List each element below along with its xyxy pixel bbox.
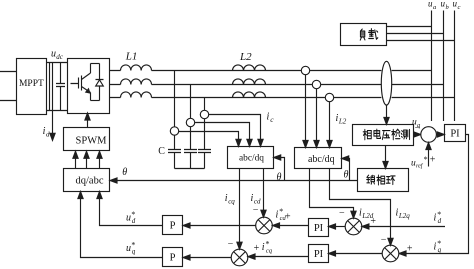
svg-text:θ: θ [277, 172, 282, 183]
svg-text:u: u [126, 243, 131, 254]
wire capacitor common bus [175, 168, 205, 170]
current sensor CT4 [301, 66, 309, 74]
wire PI3 output to i_q ref [405, 135, 469, 254]
svg-text:+: + [407, 244, 413, 255]
inductor L1 phase C [121, 92, 152, 98]
svg-text:C: C [158, 146, 165, 157]
svg-text:+: + [370, 216, 376, 227]
wire bridge bottom [91, 100, 100, 102]
wire phase C [110, 97, 455, 99]
capacitor DC link [56, 63, 65, 111]
wire i_cq [239, 169, 241, 244]
svg-text:i: i [276, 209, 279, 220]
hanzi zai (load 2) [369, 29, 378, 39]
svg-text:P: P [170, 221, 176, 232]
summing junction D (q L2 current) [382, 245, 399, 262]
wire capacitor tap A [174, 71, 176, 150]
block PI2 [309, 245, 329, 263]
svg-text:−: − [339, 208, 345, 219]
svg-text:cq: cq [266, 247, 273, 254]
block PI3 [445, 125, 466, 142]
svg-text:+: + [254, 243, 260, 254]
svg-text:−: − [415, 123, 421, 134]
svg-text:L2q: L2q [398, 212, 410, 220]
inductor L1 phase B [121, 79, 152, 85]
wire summing to PI3 [436, 134, 438, 136]
wire PV input bottom [0, 100, 17, 102]
wire load line c [387, 40, 455, 42]
svg-text:cq: cq [228, 198, 235, 206]
diode D1 [96, 64, 104, 101]
svg-text:P: P [170, 253, 176, 264]
svg-text:L2: L2 [338, 118, 347, 126]
block dq/abc [64, 169, 110, 192]
svg-text:L1: L1 [125, 51, 138, 63]
summing junction A (d current) [256, 217, 273, 234]
inductor L1 phase A [121, 65, 152, 71]
svg-text:dc: dc [56, 53, 64, 61]
svg-text:u: u [126, 212, 131, 223]
wire load line a [387, 26, 432, 28]
hanzi fu (load 1) [360, 29, 365, 40]
wire capacitor tap C [204, 98, 206, 150]
wire sumC to P2 [188, 257, 231, 259]
svg-text:ref: ref [416, 163, 424, 170]
wire i_L2 signal a [305, 75, 307, 142]
wire SPWM to inverter [87, 118, 89, 127]
wire u_ref input [428, 149, 430, 166]
wire dq/abc to SPWM 1 [75, 157, 77, 169]
summing junction voltage [421, 127, 437, 143]
wire phase A [110, 70, 432, 72]
summing junction B (d L2 current) [345, 218, 362, 235]
wire sumB to PI1 [334, 226, 345, 228]
block P1 [163, 216, 183, 235]
block phase voltage detection [353, 125, 414, 146]
wire theta distribution [116, 180, 358, 182]
inductor L2 phase C [233, 92, 266, 98]
svg-text:PI: PI [314, 223, 324, 234]
svg-text:dq/abc: dq/abc [76, 176, 104, 187]
wire i_L2q [330, 169, 391, 240]
current sensor CT5 [312, 80, 320, 88]
svg-text:i: i [434, 213, 437, 224]
svg-text:+: + [285, 212, 291, 223]
svg-text:−: − [253, 205, 259, 216]
wire i_c signal c [209, 115, 261, 141]
wire sumA to P1 [188, 225, 255, 227]
wire u_q* path [81, 197, 163, 257]
wire dq/abc to SPWM 3 [99, 157, 101, 169]
current sensor CT3 [200, 110, 208, 118]
wire PV input top [0, 71, 17, 73]
svg-text:i: i [434, 242, 437, 253]
node u_b line [443, 11, 445, 122]
wire phase B [110, 84, 444, 86]
hanzi dian (detection 2) [374, 129, 381, 138]
transistor IGBT Q1 [71, 64, 91, 101]
wire i_d sense line [52, 111, 54, 135]
wire theta branch to abc/dq1 [279, 158, 284, 181]
hanzi ce (detection 5) [401, 129, 409, 139]
wire dq/abc to SPWM 2 [86, 157, 88, 169]
hanzi suo (PLL 1) [367, 175, 375, 184]
hanzi xiang (PLL 2) [377, 175, 385, 185]
block P2 [163, 248, 183, 267]
wire theta branch to abc/dq2 [347, 159, 349, 181]
svg-text:PI: PI [314, 249, 324, 260]
svg-text:c: c [270, 115, 274, 124]
wire i_cq* from PI2 [254, 256, 309, 258]
block PI1 [309, 219, 329, 237]
block abc/dq 1 [228, 147, 274, 169]
svg-text:q: q [132, 247, 136, 255]
wire DC rail bottom [47, 110, 68, 112]
svg-text:abc/dq: abc/dq [308, 154, 335, 165]
block abc/dq 2 [295, 148, 342, 169]
svg-text:d: d [132, 217, 136, 225]
summing junction C (q current) [231, 249, 248, 266]
wire DC bus link 1 [49, 63, 51, 111]
inductor L2 phase B [233, 79, 266, 85]
svg-text:q: q [438, 246, 442, 254]
svg-text:θ: θ [344, 170, 349, 181]
current sensor CT6 [325, 93, 333, 101]
wire detection to PLL [385, 146, 387, 164]
wire i_cd [263, 169, 265, 212]
wire i_L2d [310, 169, 354, 213]
wire u_q to summing [413, 134, 416, 136]
wire i_c signal b [195, 123, 250, 141]
wire i_cd* from PI1 [279, 225, 309, 227]
svg-text:−: − [381, 235, 387, 246]
wire sumD to PI2 [334, 253, 382, 255]
svg-text:abc/dq: abc/dq [239, 153, 264, 163]
current sensor CT2 [186, 118, 194, 126]
node u_c line [454, 11, 456, 122]
hanzi huan (PLL 3) [386, 176, 395, 185]
capacitor C phase A [168, 150, 181, 169]
block inverter bridge [68, 59, 110, 114]
wire DC rail top [47, 62, 68, 64]
wire i_d* reference [368, 226, 445, 228]
svg-text:PI: PI [450, 129, 460, 140]
wire i_c signal a [179, 132, 239, 141]
block MPPT [17, 59, 47, 115]
svg-text:SPWM: SPWM [76, 136, 108, 147]
hanzi xiang (detection 1) [363, 129, 371, 139]
block SPWM [64, 128, 110, 151]
svg-text:a: a [433, 4, 436, 11]
capacitor C phase B [184, 150, 197, 169]
svg-text:+: + [430, 155, 436, 166]
wire bridge top [91, 63, 100, 65]
svg-text:c: c [458, 4, 461, 11]
hanzi jian (detection 4) [392, 129, 400, 140]
inductor L2 phase A [233, 65, 266, 71]
wire i_L2 signal c [329, 102, 331, 142]
svg-text:L2: L2 [239, 51, 252, 63]
svg-text:d: d [438, 217, 442, 225]
capacitor C phase C [198, 150, 211, 169]
block PLL [358, 169, 409, 192]
svg-text:θ: θ [122, 167, 127, 178]
hanzi ya (detection 3) [382, 131, 390, 140]
svg-text:MPPT: MPPT [19, 79, 44, 89]
voltage transformer ellipse [381, 61, 391, 105]
wire DC bus link 2 [52, 63, 54, 111]
svg-text:−: − [228, 239, 234, 250]
node u_a line [431, 11, 433, 122]
svg-text:i: i [262, 242, 265, 253]
current sensor CT1 [170, 127, 178, 135]
wire capacitor tap B [190, 85, 192, 150]
wire u_d* path [100, 197, 163, 225]
svg-text:*: * [424, 155, 428, 164]
svg-text:i: i [267, 111, 270, 122]
wire load line b [387, 33, 444, 35]
wire ellipse to voltage detection [386, 105, 388, 119]
wire i_L2 signal b [316, 89, 318, 142]
svg-text:d: d [46, 131, 50, 139]
svg-text:b: b [446, 4, 450, 11]
block load [341, 24, 387, 46]
